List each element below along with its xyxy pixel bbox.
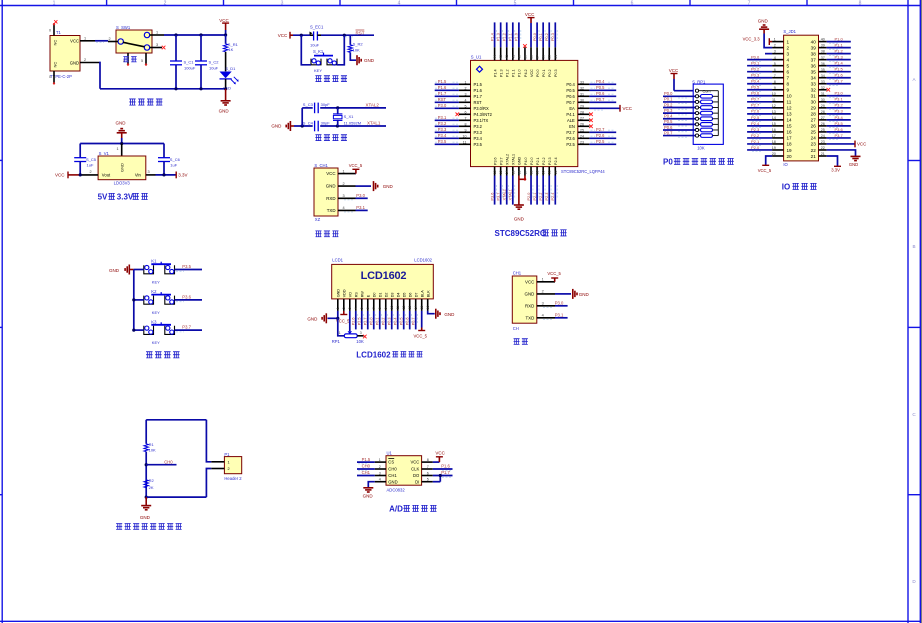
svg-text:4: 4	[774, 56, 776, 60]
U1 pin 33 P0.4	[578, 83, 590, 85]
svg-text:35: 35	[548, 55, 552, 59]
svg-text:D2: D2	[384, 293, 388, 298]
svg-text:26: 26	[821, 122, 825, 126]
svg-text:44: 44	[493, 55, 497, 59]
U1 pin 39 P4.2 (top)	[524, 47, 526, 60]
wire JD1 pin22 to GND	[827, 150, 856, 156]
svg-text:P3.1/TX: P3.1/TX	[474, 118, 489, 123]
JD1 pin 9	[772, 89, 783, 91]
svg-text:P0.2: P0.2	[545, 33, 549, 41]
svg-text:7: 7	[372, 307, 376, 309]
svg-text:P0.4: P0.4	[596, 79, 605, 84]
svg-text:P2.0: P2.0	[527, 193, 531, 201]
svg-text:P0.0: P0.0	[751, 55, 760, 60]
svg-text:XTAL1: XTAL1	[367, 121, 381, 126]
wire/net P0.7 (LCD)	[415, 311, 417, 330]
wire key left leg	[301, 35, 311, 65]
sheet frame right outer line	[919, 0, 921, 623]
svg-text:27: 27	[821, 116, 825, 120]
JD1 pin 23	[819, 143, 827, 145]
capacitor S_C6 1uF	[163, 144, 165, 158]
svg-text:VCC: VCC	[278, 33, 288, 38]
wire/net P3.5 (U1 left)	[435, 143, 459, 145]
wire/net P0.7 (U1 right)	[589, 101, 616, 103]
svg-text:P2.7: P2.7	[364, 317, 368, 325]
wire/net P2.1 (JD1 left)	[747, 143, 772, 145]
wire/net P3.3 (U1 left)	[435, 131, 459, 133]
svg-text:P0.0: P0.0	[536, 69, 540, 77]
U1 pin 25 P2.7	[578, 131, 590, 133]
svg-text:GND: GND	[219, 108, 230, 113]
svg-text:D5: D5	[402, 293, 406, 298]
svg-text:P3.6: P3.6	[493, 157, 497, 165]
U1 pin 4 RST	[459, 101, 471, 103]
svg-text:P2.6: P2.6	[352, 317, 356, 325]
svg-text:RST: RST	[356, 31, 365, 36]
JD1 pin 7	[772, 77, 783, 79]
svg-text:30: 30	[821, 98, 825, 102]
svg-text:RXD: RXD	[326, 196, 335, 201]
svg-text:RP1: RP1	[332, 339, 341, 344]
JD1 pin 8	[772, 83, 783, 85]
svg-text:14: 14	[414, 306, 418, 310]
svg-text:2: 2	[109, 37, 111, 41]
svg-text:VCC: VCC	[435, 451, 445, 456]
JD1 pin 5	[772, 65, 783, 67]
svg-text:P1.4: P1.4	[493, 69, 497, 77]
svg-text:RW: RW	[360, 291, 364, 298]
svg-text:3.3V: 3.3V	[117, 193, 134, 202]
svg-text:38: 38	[821, 50, 825, 54]
svg-text:P2.0: P2.0	[751, 145, 760, 150]
svg-text:P0.1: P0.1	[542, 69, 546, 77]
svg-text:11: 11	[396, 306, 400, 310]
U1 P4.0 tie to GND	[524, 176, 526, 180]
JD1 pin 22	[819, 149, 827, 151]
JD1 pin 32	[819, 89, 827, 91]
svg-text:P1.6: P1.6	[835, 73, 844, 78]
svg-text:VCC_5: VCC_5	[758, 168, 772, 173]
svg-text:1: 1	[336, 307, 340, 309]
JD1 pin 30	[819, 101, 827, 103]
svg-text:P0.5: P0.5	[751, 85, 760, 90]
JD1 pin 10	[772, 95, 783, 97]
svg-text:1: 1	[787, 39, 790, 44]
U1 pin 15 XTAL1 (bottom)	[512, 167, 514, 176]
VCC_5 power port (serial)	[554, 278, 556, 282]
svg-text:7: 7	[748, 1, 751, 7]
3.3V power port	[175, 172, 177, 179]
svg-text:6: 6	[787, 70, 790, 75]
wire/net P0.5 (RP1)	[663, 123, 695, 125]
VCC power port (ADC)	[433, 461, 440, 463]
svg-text:36: 36	[821, 62, 825, 66]
wire/net P0.1 (U1 top)	[542, 22, 544, 47]
wire/net P3.6 (U1 bottom)	[494, 176, 496, 205]
svg-text:P3.7: P3.7	[496, 193, 500, 201]
svg-text:R1: R1	[149, 442, 155, 447]
JD1 pin 13	[772, 113, 783, 115]
svg-text:21: 21	[811, 154, 817, 159]
svg-text:P3.6: P3.6	[490, 193, 494, 201]
svg-text:43: 43	[499, 55, 503, 59]
RP1 resistor element 7 (P0.6)	[695, 128, 698, 131]
svg-text:XTAL2: XTAL2	[506, 154, 510, 165]
no-connect marker U1 pin6	[456, 113, 460, 117]
svg-text:P2.5: P2.5	[751, 115, 760, 120]
JD1 pin 14	[772, 119, 783, 121]
svg-text:6: 6	[427, 471, 429, 475]
wire/net P3.6 (JD1 right)	[827, 131, 851, 133]
svg-text:1uF: 1uF	[170, 162, 177, 167]
svg-text:P1.7: P1.7	[835, 79, 844, 84]
wire top row to XTAL2	[338, 107, 386, 109]
svg-text:37: 37	[821, 56, 825, 60]
wire/net P1.2 (U1 top)	[506, 22, 508, 47]
svg-text:11: 11	[772, 98, 776, 102]
U1 pin 14 XTAL2 (bottom)	[506, 167, 508, 176]
svg-text:CH0: CH0	[388, 467, 397, 472]
wire/net P1.4 (U1 top)	[494, 22, 496, 47]
svg-text:GND: GND	[119, 163, 124, 172]
U1 pin 24 P2.6	[578, 137, 590, 139]
svg-text:5: 5	[774, 62, 776, 66]
wire serial GND	[555, 293, 571, 295]
svg-text:XZ: XZ	[315, 217, 321, 222]
svg-text:S_U1: S_U1	[471, 55, 482, 60]
svg-text:29: 29	[811, 106, 817, 111]
svg-text:P0.2: P0.2	[548, 69, 552, 77]
wire/net P1.6 (U1 left)	[435, 89, 459, 91]
svg-text:VCC: VCC	[669, 68, 679, 73]
VCC_5 power port (download)	[355, 173, 357, 175]
svg-text:P3.5: P3.5	[835, 121, 844, 126]
svg-text:VCC_5: VCC_5	[547, 271, 561, 276]
svg-text:GND: GND	[271, 124, 282, 129]
svg-text:P2.7: P2.7	[751, 103, 760, 108]
title reset circuit	[315, 76, 321, 82]
svg-text:T1: T1	[56, 30, 62, 35]
wire/net P0.6 (LCD)	[409, 311, 411, 330]
wire/net P2.2 (U1 bottom)	[542, 176, 544, 205]
svg-text:21: 21	[821, 152, 825, 156]
svg-text:40: 40	[811, 39, 817, 44]
svg-text:P3.2: P3.2	[438, 121, 447, 126]
svg-text:P0.0: P0.0	[370, 317, 374, 325]
svg-text:P3.5: P3.5	[182, 264, 191, 269]
svg-text:GND: GND	[363, 493, 374, 498]
svg-text:LCD1: LCD1	[332, 258, 343, 263]
svg-text:P1.0: P1.0	[835, 37, 844, 42]
svg-text:36: 36	[542, 55, 546, 59]
svg-text:10K: 10K	[353, 47, 360, 52]
svg-text:33: 33	[580, 81, 584, 85]
svg-text:S_C4: S_C4	[303, 120, 314, 125]
wire/net P3.0 (U1 left)	[435, 107, 459, 109]
svg-text:20: 20	[787, 154, 793, 159]
svg-text:28: 28	[821, 110, 825, 114]
svg-text:P0.3: P0.3	[751, 73, 760, 78]
svg-text:P2.5: P2.5	[566, 142, 575, 147]
wire/net P3.3 (JD1 right)	[827, 113, 851, 115]
U1 pin 34 P0.3 (top)	[554, 47, 556, 60]
U1 pin 35 P0.2 (top)	[548, 47, 550, 60]
svg-text:S_K1: S_K1	[313, 49, 324, 54]
svg-text:RST: RST	[438, 97, 447, 102]
U1 pin 20 P2.2 (bottom)	[542, 167, 544, 176]
svg-text:P1.3: P1.3	[496, 33, 500, 41]
wire/net P1.5 (JD1 right)	[827, 71, 851, 73]
U1 pin 31 P0.6	[578, 95, 590, 97]
svg-text:31: 31	[580, 93, 584, 97]
svg-text:CLK: CLK	[411, 467, 419, 472]
svg-text:GND: GND	[579, 292, 590, 297]
svg-text:1: 1	[379, 458, 381, 462]
JD1 pin 28	[819, 113, 827, 115]
svg-text:VCC: VCC	[55, 173, 65, 178]
wire/net P3.5 (K1)	[175, 269, 203, 271]
JD1 pin 20	[772, 155, 783, 157]
wire/net P0.3 (U1 top)	[554, 22, 556, 47]
svg-text:P0.3: P0.3	[664, 108, 673, 113]
svg-text:3: 3	[787, 51, 790, 56]
svg-text:2: 2	[343, 182, 345, 186]
svg-text:16: 16	[426, 306, 430, 310]
top rail wire	[164, 34, 226, 36]
title battery voltage	[116, 524, 122, 530]
svg-text:P1.2: P1.2	[506, 69, 510, 77]
svg-text:11.0592M: 11.0592M	[344, 120, 362, 125]
wire/net P1.7 (U1 left)	[435, 95, 459, 97]
svg-text:37: 37	[811, 57, 817, 62]
svg-text:P1.1: P1.1	[509, 33, 513, 41]
svg-text:10: 10	[390, 306, 394, 310]
svg-text:29: 29	[821, 104, 825, 108]
svg-text:P0.6: P0.6	[664, 125, 673, 130]
svg-text:3: 3	[465, 93, 467, 97]
svg-text:29: 29	[580, 105, 584, 109]
svg-text:P3.1: P3.1	[438, 115, 447, 120]
svg-text:K3: K3	[151, 319, 157, 324]
svg-text:39: 39	[821, 44, 825, 48]
wire JD1 pin20 to VCC_5	[766, 156, 772, 165]
JD1 pin 17	[772, 137, 783, 139]
svg-text:30: 30	[580, 99, 584, 103]
svg-text:17: 17	[787, 136, 793, 141]
svg-text:P0.5: P0.5	[596, 85, 605, 90]
svg-text:2: 2	[379, 465, 381, 469]
svg-text:VO: VO	[348, 292, 352, 297]
svg-text:P2.2: P2.2	[542, 157, 546, 165]
U1 pin 11 P3.5	[459, 143, 471, 145]
svg-text:37: 37	[536, 55, 540, 59]
svg-text:5: 5	[360, 307, 364, 309]
svg-text:30: 30	[811, 100, 817, 105]
svg-text:S_JD1: S_JD1	[783, 29, 796, 34]
svg-text:P0.1: P0.1	[539, 33, 543, 41]
svg-text:P0.5: P0.5	[664, 119, 673, 124]
svg-text:1: 1	[84, 37, 86, 41]
svg-text:P0.4: P0.4	[566, 82, 575, 87]
wire/net P2.5 (JD1 left)	[747, 119, 772, 121]
svg-text:1: 1	[542, 278, 544, 282]
svg-text:VCC: VCC	[857, 142, 866, 147]
wire/net P2.3 (U1 bottom)	[548, 176, 550, 205]
battery divider top wire	[146, 419, 206, 421]
svg-text:K1: K1	[151, 259, 157, 264]
svg-text:34: 34	[554, 55, 558, 59]
JD1 pin 31	[819, 95, 827, 97]
bottom rail wire	[100, 88, 226, 90]
wire/net P1.0 (JD1 right)	[827, 41, 851, 43]
no-connect marker U1 P4.2	[523, 44, 527, 48]
U1 pin 42 P1.2 (top)	[506, 47, 508, 60]
JD1 pin 24	[819, 137, 827, 139]
svg-text:27: 27	[811, 118, 817, 123]
svg-text:P3.5: P3.5	[474, 142, 483, 147]
stub wire JD1 pin3	[765, 53, 772, 55]
sheet frame left line	[1, 0, 3, 623]
svg-text:8: 8	[465, 123, 467, 127]
svg-text:7: 7	[465, 117, 467, 121]
wire/net P2.1 (U1 bottom)	[536, 176, 538, 205]
svg-text:P1.5: P1.5	[362, 457, 371, 462]
wire/net P0.1 (JD1 left)	[747, 65, 772, 67]
wire/net P1.7 (ADC DO/DI)	[433, 475, 453, 477]
RP1 resistor element 5 (P0.4)	[695, 117, 698, 120]
svg-text:P2.1: P2.1	[536, 157, 540, 165]
svg-text:19: 19	[787, 148, 793, 153]
svg-text:VCC_5: VCC_5	[414, 333, 428, 338]
svg-text:3: 3	[774, 50, 776, 54]
svg-text:GND: GND	[518, 156, 522, 165]
svg-text:S_X1: S_X1	[344, 114, 355, 119]
svg-text:41: 41	[511, 55, 515, 59]
svg-text:P0.7: P0.7	[751, 97, 760, 102]
svg-text:LCD1602: LCD1602	[414, 258, 432, 263]
JD1 pin 2	[772, 47, 783, 49]
U1 pin 37 P0.0 (top)	[536, 47, 538, 60]
wire key right leg	[337, 35, 344, 65]
svg-text:GND: GND	[336, 289, 340, 298]
wire/net P0.7 (RP1)	[663, 135, 695, 137]
svg-text:XTAL2: XTAL2	[503, 189, 507, 200]
svg-text:P2.7: P2.7	[596, 127, 605, 132]
wire/net P3.1 (JD1 right)	[827, 101, 851, 103]
svg-text:P3.4: P3.4	[474, 136, 483, 141]
svg-text:17: 17	[523, 170, 527, 174]
svg-text:P2.3: P2.3	[751, 127, 760, 132]
svg-text:D1: D1	[378, 293, 382, 298]
svg-text:P0.5: P0.5	[566, 88, 575, 93]
svg-text:KEY: KEY	[152, 280, 160, 285]
svg-text:23: 23	[821, 140, 825, 144]
svg-text:P4.2: P4.2	[524, 69, 528, 77]
LCD1602 body	[332, 264, 434, 299]
svg-text:R2: R2	[149, 478, 155, 483]
U1 pin 38 VCC (top)	[530, 47, 532, 60]
net CH0	[145, 463, 148, 466]
svg-text:22: 22	[811, 148, 817, 153]
wire/net P3.1 (U1 left)	[435, 119, 459, 121]
T1 pin 1	[80, 40, 95, 42]
svg-text:5: 5	[787, 63, 790, 68]
svg-text:GND: GND	[109, 268, 120, 273]
U1 pin 13 P3.7 (bottom)	[500, 167, 502, 176]
svg-text:20: 20	[542, 170, 546, 174]
svg-text:13: 13	[772, 110, 776, 114]
U1 pin 17 P4.0 (bottom)	[524, 167, 526, 176]
wire/net P3.7 (JD1 right)	[827, 137, 851, 139]
svg-text:P3.0: P3.0	[555, 301, 564, 306]
U1 pin 10 P3.4	[459, 137, 471, 139]
svg-text:31: 31	[821, 92, 825, 96]
wire/net P2.5 (U1 right)	[589, 143, 616, 145]
connector T1 TYPE-C-2P	[50, 36, 80, 72]
svg-text:10: 10	[463, 135, 467, 139]
svg-text:P1.0: P1.0	[518, 69, 522, 77]
JD1 pin 35	[819, 71, 827, 73]
wire/net P1.1 (U1 top)	[512, 22, 514, 47]
svg-text:DI: DI	[415, 479, 419, 484]
no-connect marker JD1 pin 32	[827, 88, 831, 92]
RP1 resistor element 4 (P0.3)	[695, 112, 698, 115]
potentiometer RP1 10K	[348, 331, 352, 334]
JD1 pin 27	[819, 119, 827, 121]
U1 pin 9 P3.3	[459, 131, 471, 133]
U1 pin 2 P1.6	[459, 89, 471, 91]
wire/net P3.4 (U1 left)	[435, 137, 459, 139]
svg-text:13: 13	[499, 170, 503, 174]
svg-text:1: 1	[156, 30, 158, 34]
svg-text:21: 21	[548, 170, 552, 174]
svg-text:10K: 10K	[149, 448, 156, 453]
svg-text:3: 3	[148, 170, 150, 174]
svg-text:30pF: 30pF	[321, 120, 331, 125]
svg-text:XTAL1: XTAL1	[512, 154, 516, 165]
wire/net P3.7 (U1 bottom)	[500, 176, 502, 205]
svg-text:P3.5: P3.5	[438, 139, 447, 144]
RP1 resistor element 1 (P0.0)	[695, 95, 698, 98]
JD1 pin 6	[772, 71, 783, 73]
svg-text:38: 38	[811, 51, 817, 56]
svg-text:P3.0: P3.0	[356, 193, 365, 198]
wire/net P1.5 (ADC CS)	[357, 461, 375, 463]
LCD pin1 to GND	[328, 311, 338, 318]
svg-text:2: 2	[465, 87, 467, 91]
svg-text:33: 33	[811, 82, 817, 87]
wire/net P2.4 (JD1 left)	[747, 125, 772, 127]
svg-text:10uF: 10uF	[310, 43, 320, 48]
svg-text:9: 9	[384, 307, 388, 309]
JD1 pin 38	[819, 53, 827, 55]
bottom wire	[145, 496, 148, 499]
svg-text:P3.6: P3.6	[182, 294, 191, 299]
svg-text:S_EC1: S_EC1	[310, 24, 324, 29]
wire/net P0.0 (LCD)	[373, 311, 375, 330]
U1 pin 18 P2.0 (bottom)	[530, 167, 532, 176]
svg-text:8: 8	[787, 82, 790, 87]
wire/net P3.2 (JD1 right)	[827, 107, 851, 109]
wire/net RST (U1 left)	[435, 101, 459, 103]
svg-text:LCD1602: LCD1602	[361, 270, 407, 282]
svg-text:14: 14	[505, 170, 509, 174]
svg-text:25: 25	[580, 129, 584, 133]
svg-text:K2: K2	[151, 289, 157, 294]
svg-text:P2.6: P2.6	[566, 136, 575, 141]
svg-text:P1.2: P1.2	[503, 33, 507, 41]
wire/net P0.4 (RP1)	[663, 118, 695, 120]
